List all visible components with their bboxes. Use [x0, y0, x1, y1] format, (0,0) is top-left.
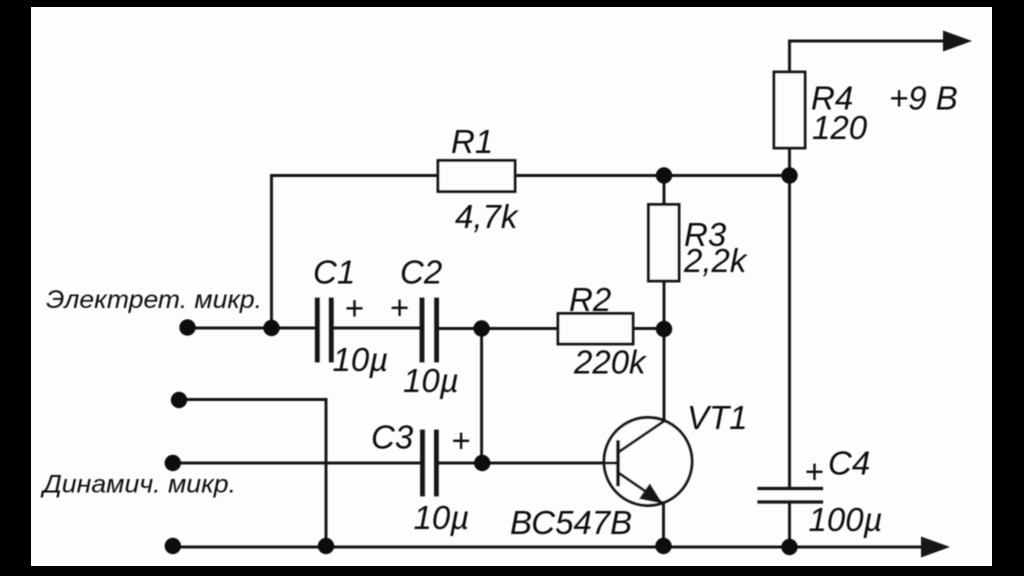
svg-text:R2: R2	[569, 281, 611, 318]
svg-text:10µ: 10µ	[414, 499, 470, 536]
node junction R2 R3 collector	[656, 321, 672, 337]
svg-text:C2: C2	[400, 254, 442, 291]
wire R3 bottom to node	[663, 281, 666, 329]
svg-text:10µ: 10µ	[403, 362, 459, 399]
svg-text:220k: 220k	[573, 344, 647, 381]
svg-text:100µ: 100µ	[809, 501, 883, 538]
wire main horizontal rail y=175 right segment	[515, 174, 790, 177]
node junction C4 ground	[781, 539, 797, 555]
wire emitter down to ground rail	[662, 503, 665, 547]
transistor VT1 emitter lead	[618, 473, 661, 503]
svg-text:ВС547В: ВС547В	[510, 504, 632, 541]
node junction rail R4	[781, 167, 797, 183]
svg-text:+: +	[344, 290, 363, 327]
svg-text:R1: R1	[451, 123, 493, 160]
svg-text:C4: C4	[828, 445, 870, 482]
transistor VT1 collector lead	[618, 422, 664, 453]
svg-text:+: +	[804, 453, 823, 490]
svg-text:+9 В: +9 В	[889, 80, 958, 117]
svg-text:10µ: 10µ	[333, 341, 389, 378]
svg-text:+: +	[390, 289, 409, 326]
node electret input terminal	[179, 319, 195, 335]
wire R4 bottom to C4 top	[788, 148, 791, 488]
wire main horizontal rail y=175 left segment	[272, 174, 439, 177]
transistor VT1 emitter arrow	[639, 483, 663, 503]
wire dynamic mic upper lead	[179, 398, 326, 401]
node ground left terminal	[165, 538, 181, 554]
svg-text:4,7k: 4,7k	[455, 198, 519, 235]
wire C4 to ground rail	[788, 502, 791, 547]
node junction base	[474, 455, 490, 471]
node dynamic mic lower terminal	[165, 455, 181, 471]
wire vertical from R1 rail down to input line	[270, 176, 273, 329]
wire C2 node down to base node	[480, 329, 483, 464]
node junction rail R3	[656, 167, 672, 183]
transistor VT1 body	[604, 418, 692, 506]
wire node to collector	[663, 329, 666, 422]
svg-text:Динамич. микр.: Динамич. микр.	[40, 471, 236, 499]
wire rail node down to R3	[663, 176, 666, 205]
svg-text:C3: C3	[371, 419, 414, 456]
wire +9V top rail	[790, 41, 945, 72]
svg-text:Электрет. микр.: Электрет. микр.	[46, 286, 262, 314]
transistor VT1 base bar	[616, 442, 620, 485]
node dynamic mic upper terminal	[171, 392, 187, 408]
wire dynamic mic lower lead to C3	[173, 462, 420, 465]
node junction emitter ground	[655, 538, 671, 554]
svg-text:2,2k: 2,2k	[683, 242, 748, 279]
node junction R1 tap	[263, 320, 279, 336]
wire C1 to C2	[333, 327, 420, 330]
svg-text:C1: C1	[313, 254, 355, 291]
resistor R1	[438, 161, 515, 192]
node junction dynamic ground	[318, 538, 334, 554]
wire ground bottom rail	[173, 546, 922, 549]
node +9V arrow	[943, 31, 972, 52]
resistor R2	[558, 314, 633, 345]
wire electret input to C1	[188, 327, 316, 330]
capacitor C3	[423, 432, 437, 494]
capacitor C1	[317, 300, 331, 360]
svg-text:VT1: VT1	[687, 399, 748, 436]
node junction C2 output	[473, 320, 489, 336]
wire vertical to ground rail	[325, 400, 328, 548]
capacitor C2	[422, 300, 437, 360]
wire C2 to R2	[438, 327, 558, 330]
resistor R4	[774, 72, 805, 148]
wire C3 to base node	[438, 462, 618, 465]
svg-text:+: +	[451, 422, 470, 459]
resistor R3	[649, 205, 680, 282]
capacitor C4	[759, 489, 822, 503]
wire R2 to R3 node	[633, 327, 664, 330]
svg-text:120: 120	[812, 109, 868, 146]
node ground arrow	[921, 537, 950, 558]
